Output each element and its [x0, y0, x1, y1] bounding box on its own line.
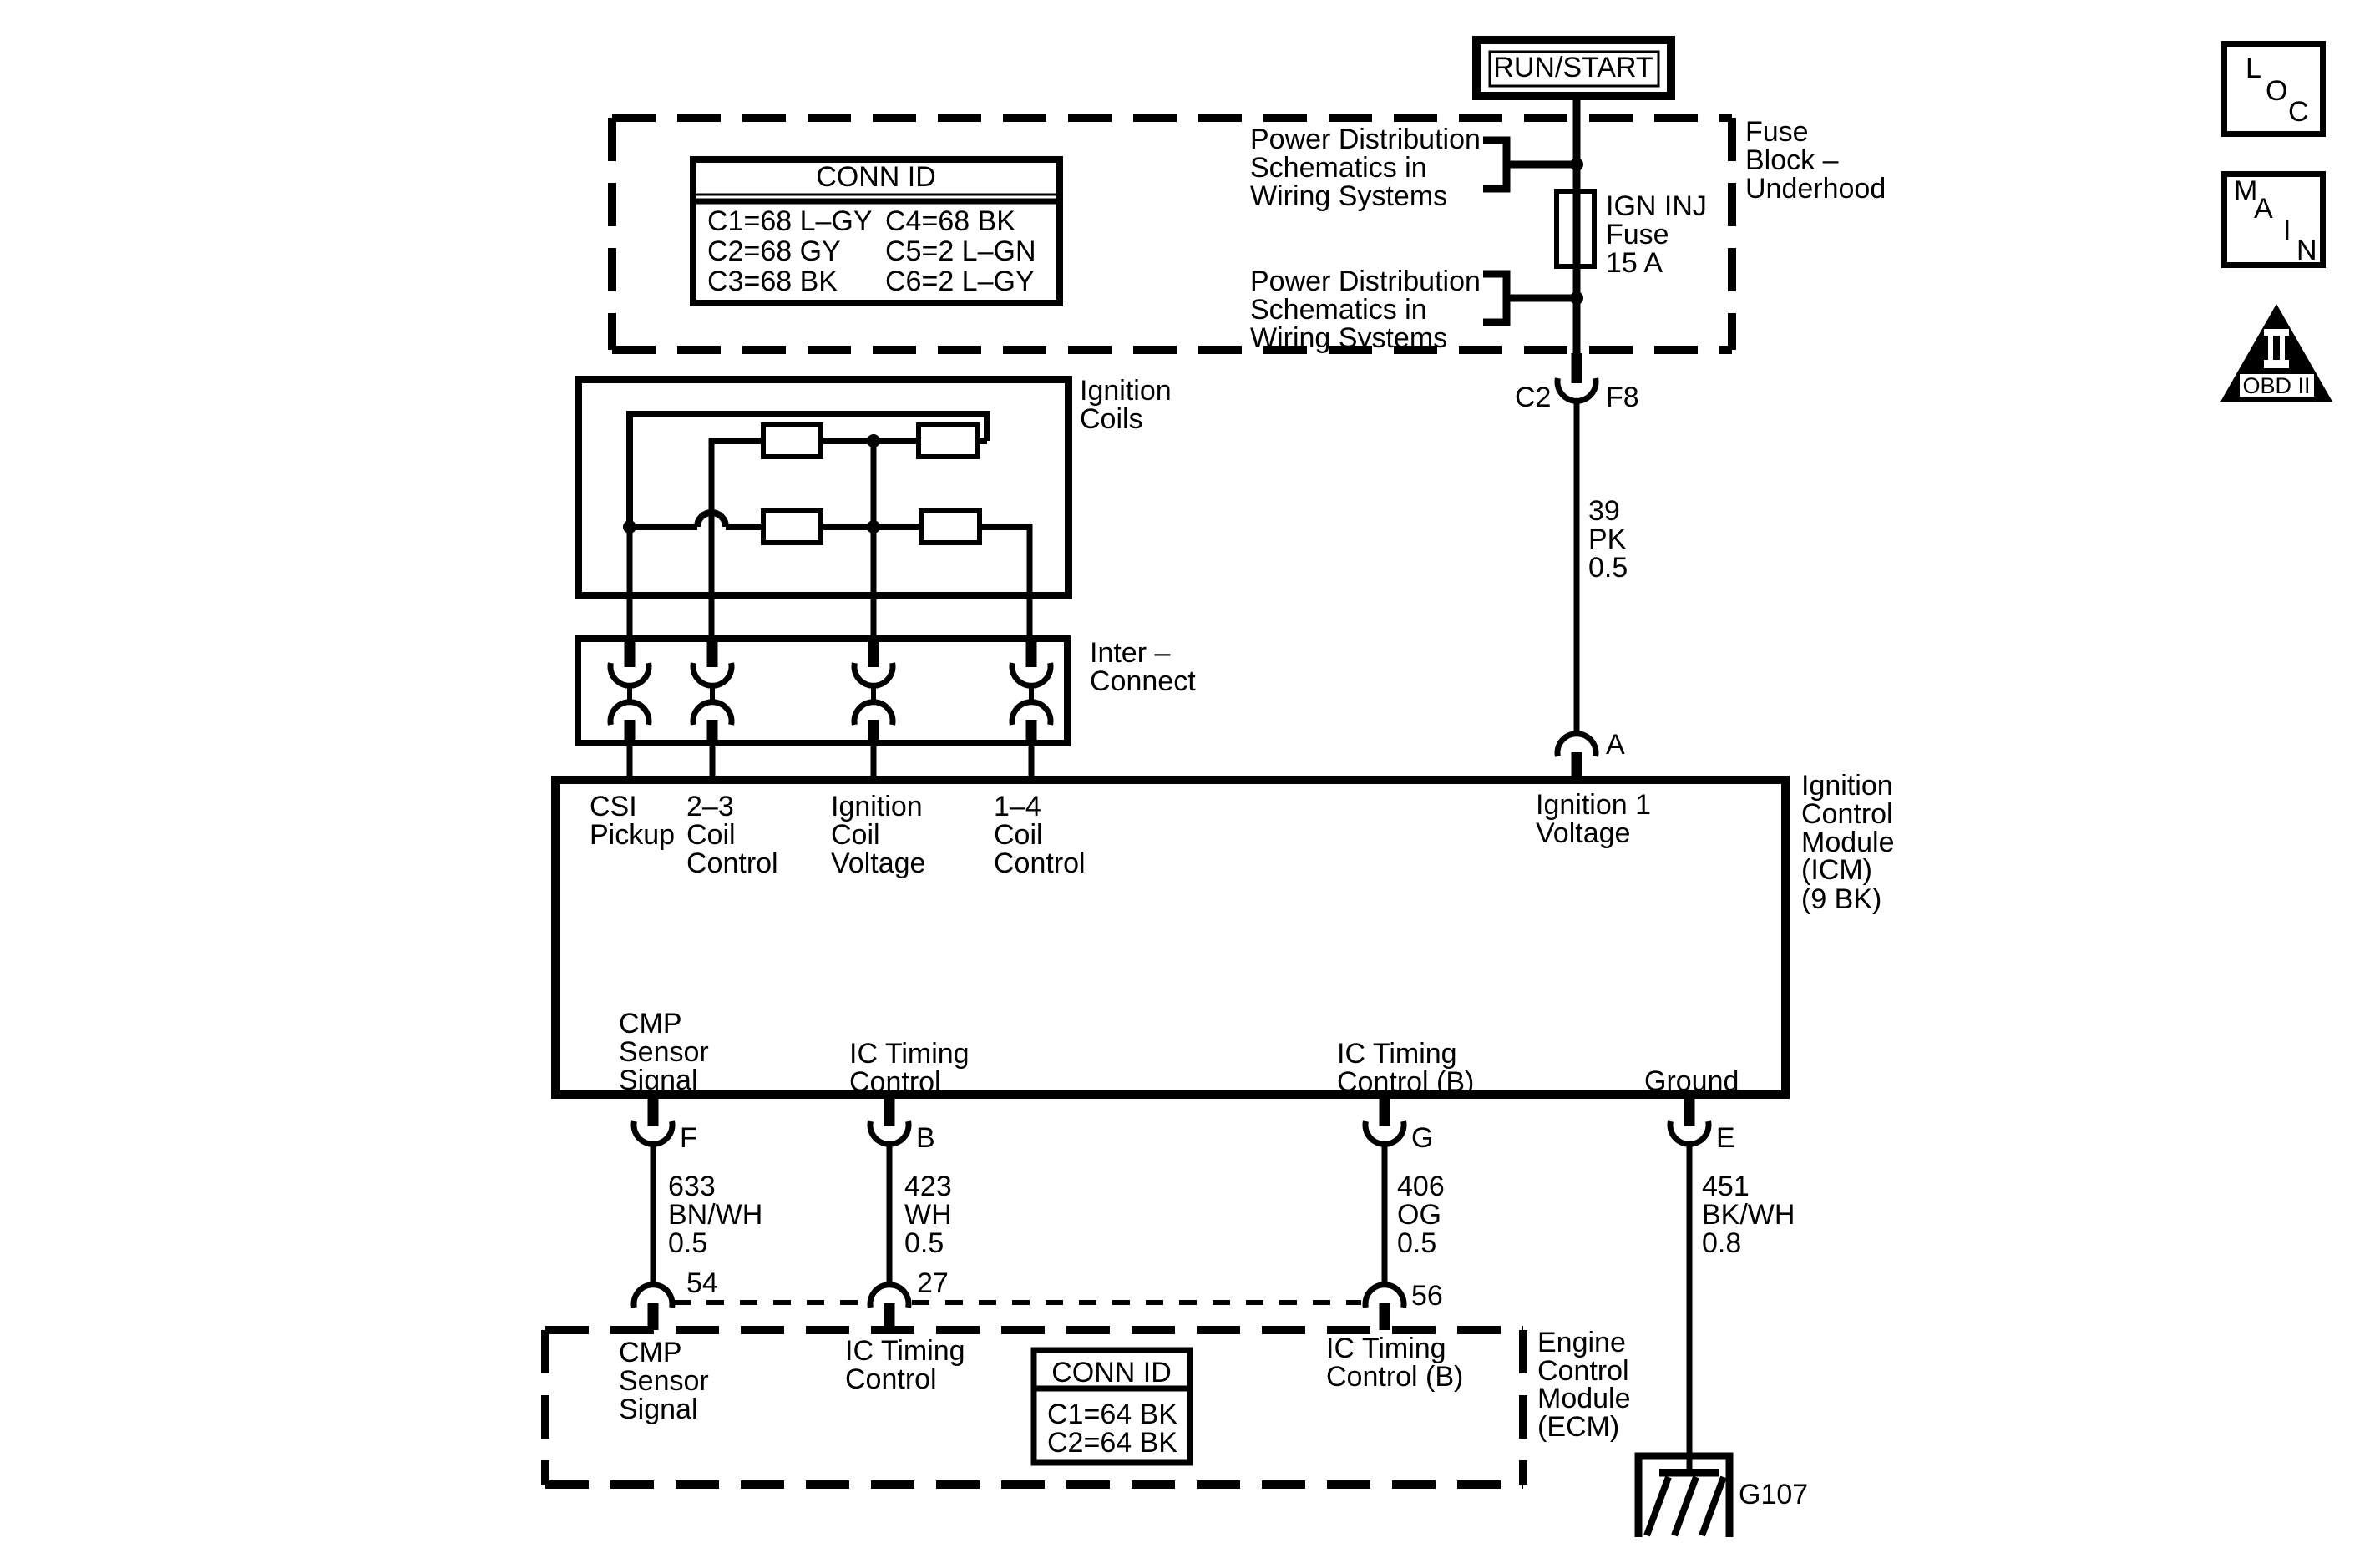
svg-text:IC Timing: IC Timing — [1337, 1038, 1457, 1070]
wire: coil primary top row — [711, 438, 987, 444]
svg-text:Voltage: Voltage — [1536, 817, 1630, 849]
label: IC Timing Control (B) (ECM) — [1326, 1333, 1463, 1393]
label: wire 423 WH 0.5 — [904, 1171, 952, 1259]
svg-text:(ECM): (ECM) — [1537, 1411, 1619, 1443]
connector: ECM terminal 56 — [1365, 1285, 1404, 1330]
svg-text:423: 423 — [904, 1171, 952, 1202]
svg-text:G: G — [1411, 1122, 1433, 1154]
svg-text:Fuse: Fuse — [1745, 116, 1809, 148]
svg-text:Module: Module — [1537, 1383, 1631, 1414]
svg-text:Coil: Coil — [994, 819, 1043, 851]
wire: CSI pickup vertical lower — [627, 524, 633, 638]
svg-text:C5=2 L–GN: C5=2 L–GN — [885, 235, 1036, 267]
inline connector: 1-4 coil control — [1012, 638, 1051, 776]
connector C2 pin F8: pin stub — [1572, 353, 1582, 383]
svg-text:Power Distribution: Power Distribution — [1250, 266, 1481, 297]
connector pin G: pin stub and cup — [1365, 1099, 1404, 1144]
svg-text:C1=64 BK: C1=64 BK — [1047, 1399, 1177, 1430]
svg-text:CONN ID: CONN ID — [1051, 1357, 1172, 1389]
svg-text:A: A — [1606, 729, 1625, 761]
label: wire 451 BK/WH 0.8 — [1702, 1171, 1795, 1259]
svg-text:C2: C2 — [1515, 382, 1551, 413]
connector pin B: pin stub and cup — [870, 1099, 909, 1144]
svg-text:Control (B): Control (B) — [1337, 1066, 1474, 1098]
svg-text:0.8: 0.8 — [1702, 1227, 1741, 1259]
wire: ignition feed from RUN/START through fuse — [1573, 100, 1581, 353]
Engine Control Module (ECM) dashed box — [545, 1330, 1523, 1485]
svg-text:Control: Control — [845, 1363, 937, 1395]
label: CSI Pickup (ICM pin) — [590, 791, 675, 851]
connector: ECM terminal 27 — [870, 1285, 909, 1330]
label: wire 39 PK 0.5 — [1588, 495, 1628, 584]
Fuse Block - Underhood dashed box — [612, 118, 1732, 350]
wire: circuit 406 OG 0.5 — [1382, 1145, 1388, 1284]
svg-text:Coils: Coils — [1080, 403, 1143, 435]
coil winding: bottom left — [763, 511, 821, 543]
wire: 1-4 coil control vertical — [1027, 524, 1033, 638]
svg-text:IC Timing: IC Timing — [849, 1038, 970, 1070]
label: Ignition Control Module (ICM) (9 BK) — [1801, 770, 1895, 915]
svg-text:633: 633 — [668, 1171, 716, 1202]
svg-text:CMP: CMP — [619, 1008, 682, 1040]
svg-text:CMP: CMP — [619, 1337, 682, 1368]
svg-text:Control: Control — [686, 847, 778, 879]
svg-text:27: 27 — [917, 1267, 949, 1299]
svg-text:Control: Control — [994, 847, 1086, 879]
svg-text:Power Distribution: Power Distribution — [1250, 124, 1481, 155]
wire: crossover hop over 2-3 vertical — [697, 513, 726, 527]
svg-text:0.5: 0.5 — [1588, 552, 1628, 584]
svg-text:Schematics in: Schematics in — [1250, 294, 1427, 326]
ECM connector face dotted line — [673, 1300, 1361, 1305]
Ignition Control Module (ICM) box — [555, 780, 1785, 1095]
svg-text:Voltage: Voltage — [831, 847, 925, 879]
svg-text:Ignition: Ignition — [1801, 770, 1893, 802]
label: 1-4 Coil Control (ICM pin) — [994, 791, 1086, 879]
label: 2-3 Coil Control (ICM pin) — [686, 791, 778, 879]
svg-text:Inter –: Inter – — [1090, 637, 1170, 669]
wire: coil bottom row left of hop — [630, 524, 697, 530]
svg-text:15 A: 15 A — [1606, 247, 1663, 279]
svg-text:CONN ID: CONN ID — [816, 161, 936, 193]
svg-text:(9 BK): (9 BK) — [1801, 883, 1881, 915]
svg-text:O: O — [2266, 75, 2287, 107]
svg-text:Control: Control — [1801, 798, 1893, 830]
label: Engine Control Module (ECM) — [1537, 1327, 1631, 1443]
connector pin E: pin stub and cup — [1670, 1099, 1709, 1144]
svg-text:C4=68 BK: C4=68 BK — [885, 205, 1015, 237]
wire: circuit 451 BK/WH 0.8 to ground — [1687, 1145, 1693, 1473]
svg-text:Wiring Systems: Wiring Systems — [1250, 322, 1447, 354]
junction: voltage vertical / bottom row — [867, 520, 880, 534]
svg-text:54: 54 — [686, 1267, 718, 1299]
svg-text:Wiring Systems: Wiring Systems — [1250, 180, 1447, 212]
label: IC Timing Control (ICM pin B) — [849, 1038, 970, 1098]
coil winding: bottom right — [921, 511, 980, 543]
label: power distribution reference (upper) — [1250, 124, 1481, 212]
junction: voltage vertical / top row — [867, 434, 880, 448]
svg-text:IGN INJ: IGN INJ — [1606, 190, 1707, 222]
RUN/START power feed box — [1476, 40, 1671, 96]
label: IGN INJ Fuse 15 A — [1606, 190, 1707, 279]
inline connector: 2-3 coil control — [693, 638, 732, 776]
Inter-Connect box — [578, 639, 1067, 743]
wire: coil bottom row right of hop — [726, 524, 1030, 530]
svg-text:(ICM): (ICM) — [1801, 854, 1872, 886]
svg-text:0.5: 0.5 — [1397, 1227, 1436, 1259]
svg-text:B: B — [916, 1122, 935, 1154]
CONN ID table (fuse block) — [693, 159, 1060, 303]
svg-text:Signal: Signal — [619, 1065, 698, 1096]
svg-text:Coil: Coil — [686, 819, 736, 851]
svg-text:IC Timing: IC Timing — [845, 1335, 965, 1367]
svg-text:Control (B): Control (B) — [1326, 1361, 1463, 1393]
svg-text:OBD II: OBD II — [2242, 373, 2310, 398]
svg-text:C3=68 BK: C3=68 BK — [707, 266, 838, 297]
legend: OBD II triangle symbol — [2220, 304, 2332, 402]
svg-text:I: I — [2283, 215, 2291, 246]
svg-text:Signal: Signal — [619, 1394, 698, 1425]
svg-text:Coil: Coil — [831, 819, 880, 851]
wire: circuit 423 WH 0.5 — [887, 1145, 893, 1284]
label: wire 406 OG 0.5 — [1397, 1171, 1445, 1259]
wire: circuit 39 PK 0.5 — [1574, 402, 1580, 732]
svg-text:Control: Control — [849, 1066, 941, 1098]
connector pin A: terminal cup — [1557, 734, 1596, 756]
svg-text:0.5: 0.5 — [904, 1227, 944, 1259]
svg-text:BK/WH: BK/WH — [1702, 1199, 1795, 1231]
coil winding: top left — [763, 425, 821, 457]
CONN ID table (ECM) — [1034, 1350, 1190, 1463]
svg-text:C: C — [2288, 96, 2309, 128]
svg-text:Ignition 1: Ignition 1 — [1536, 789, 1651, 821]
junction: lower tap on ignition feed — [1570, 291, 1583, 305]
svg-text:2–3: 2–3 — [686, 791, 734, 822]
svg-text:0.5: 0.5 — [668, 1227, 707, 1259]
Ignition Coils box — [579, 380, 1069, 596]
svg-text:Block –: Block – — [1745, 144, 1839, 176]
label: CMP Sensor Signal (ECM) — [619, 1337, 709, 1425]
svg-text:Engine: Engine — [1537, 1327, 1626, 1358]
svg-text:Fuse: Fuse — [1606, 219, 1669, 250]
svg-text:WH: WH — [904, 1199, 952, 1231]
legend: MAIN box — [2225, 175, 2323, 267]
fuse: IGN INJ 15 A — [1557, 191, 1594, 266]
svg-text:39: 39 — [1588, 495, 1620, 527]
svg-text:A: A — [2254, 193, 2273, 225]
svg-text:Schematics in: Schematics in — [1250, 152, 1427, 184]
ground G107 symbol — [1638, 1456, 1729, 1537]
svg-text:Ignition: Ignition — [831, 791, 923, 822]
svg-text:1–4: 1–4 — [994, 791, 1041, 822]
connector C2 pin F8: terminal cup — [1557, 378, 1596, 401]
svg-text:56: 56 — [1411, 1280, 1443, 1312]
connector pin F: pin stub and cup — [634, 1099, 672, 1144]
label: Ignition Coils — [1080, 375, 1172, 435]
svg-text:Ground: Ground — [1644, 1065, 1739, 1097]
svg-text:Ignition: Ignition — [1080, 375, 1172, 407]
svg-text:Underhood: Underhood — [1745, 173, 1886, 205]
coil winding: top right — [919, 425, 977, 457]
wire: 2-3 coil control vertical — [709, 438, 715, 638]
svg-text:IC Timing: IC Timing — [1326, 1333, 1446, 1364]
svg-text:451: 451 — [1702, 1171, 1750, 1202]
inline connector: CSI pickup — [610, 638, 649, 776]
svg-text:CSI: CSI — [590, 791, 637, 822]
svg-text:Sensor: Sensor — [619, 1036, 709, 1068]
legend: LOC box — [2225, 44, 2323, 134]
label: IC Timing Control (ECM) — [845, 1335, 965, 1395]
label: Inter-Connect — [1090, 637, 1196, 697]
svg-text:F8: F8 — [1606, 382, 1639, 413]
label: Ignition 1 Voltage (ICM pin A) — [1536, 789, 1651, 849]
label: wire 633 BN/WH 0.5 — [668, 1171, 762, 1259]
wire: coil secondary top loop — [630, 414, 987, 527]
svg-text:RUN/START: RUN/START — [1493, 52, 1653, 83]
connector: ECM terminal 54 — [634, 1285, 672, 1330]
svg-text:BN/WH: BN/WH — [668, 1199, 762, 1231]
connector pin A: pin stub — [1572, 752, 1582, 776]
wire: circuit 633 BN/WH 0.5 — [651, 1145, 656, 1284]
svg-text:Sensor: Sensor — [619, 1365, 709, 1397]
svg-text:406: 406 — [1397, 1171, 1445, 1202]
svg-text:PK: PK — [1588, 524, 1627, 555]
svg-text:G107: G107 — [1739, 1479, 1808, 1510]
wire: ignition coil voltage vertical — [871, 441, 877, 638]
label: Ignition Coil Voltage (ICM pin) — [831, 791, 925, 879]
bracket: upper power distribution tap — [1483, 140, 1573, 189]
svg-text:Pickup: Pickup — [590, 819, 675, 851]
junction: CSI / bottom row — [623, 520, 636, 534]
svg-text:C1=68 L–GY: C1=68 L–GY — [707, 205, 873, 237]
label: power distribution reference (lower) — [1250, 266, 1481, 354]
svg-text:C2=64 BK: C2=64 BK — [1047, 1427, 1177, 1459]
svg-text:L: L — [2246, 53, 2261, 84]
label: IC Timing Control (B) (ICM pin G) — [1337, 1038, 1474, 1098]
svg-text:F: F — [680, 1122, 697, 1154]
bracket: lower power distribution tap — [1483, 274, 1573, 322]
svg-text:C6=2 L–GY: C6=2 L–GY — [885, 266, 1035, 297]
inline connector: ignition coil voltage — [854, 638, 893, 776]
label: CMP Sensor Signal (ICM pin F) — [619, 1008, 709, 1096]
svg-text:N: N — [2296, 235, 2317, 266]
svg-text:C2=68 GY: C2=68 GY — [707, 235, 841, 267]
junction: upper tap on ignition feed — [1570, 158, 1583, 171]
svg-text:Connect: Connect — [1090, 665, 1196, 697]
svg-text:E: E — [1716, 1122, 1735, 1154]
svg-text:OG: OG — [1397, 1199, 1441, 1231]
label: Fuse Block - Underhood — [1745, 116, 1886, 205]
